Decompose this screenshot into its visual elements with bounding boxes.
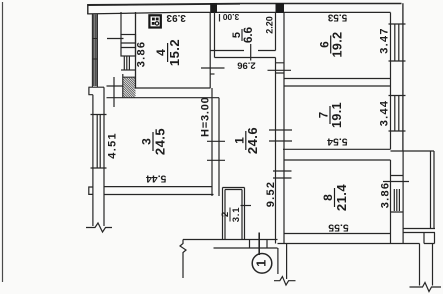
room 5 bottom wall bottom line [215,57,276,59]
top wall pier 3 [276,3,285,13]
central wall top left line (room5/6) [275,13,277,51]
top exterior wall outer line left [87,4,240,5]
shaft window bottom tick [121,69,136,71]
niche door lines (room 3 top-left) [107,74,136,107]
balcony outer wall line (right of room 8) [402,151,404,244]
dim 3.00 [222,12,239,22]
svg-text:2.96: 2.96 [237,59,256,70]
dim 3.47 [379,27,391,54]
window W4 joint ticks [92,39,97,60]
room 5 label [231,27,255,43]
dim 5.54 [327,136,348,148]
dim 3.00 left end tick [219,14,221,22]
room 2 label [220,207,242,223]
left exterior wall inner line (middle) [103,87,105,226]
room 5 bottom wall top line with door opening [210,50,275,52]
balcony door rungs (room 8 right) [391,176,404,213]
central wall left line (rooms 1 / 5,6,7,8) [275,58,277,244]
dim 4.51 [106,132,118,159]
window W3 glazing (room 3 left wall) [97,115,100,168]
wall jog A (left wall) [88,87,104,95]
svg-text:5.55: 5.55 [328,222,349,234]
room 3 bottom wall top line [104,186,212,188]
svg-text:3.44: 3.44 [379,100,391,127]
dim 3.86 right [379,182,391,209]
room 2 top wall [223,188,245,190]
room 5 door jamb tick [250,44,252,61]
svg-text:24.5: 24.5 [152,128,167,155]
bottom wall under room 8 [278,243,420,245]
dimension tick T3 [268,69,292,71]
wall bump B (left wall bottom) [89,187,93,194]
break mark bottom center [274,277,296,286]
window W6 end ticks [389,24,406,61]
right exterior wall inner line [390,13,392,150]
svg-text:15.2: 15.2 [167,39,182,66]
room 3 bottom wall bottom line [104,194,214,196]
balcony bottom bar [404,229,436,233]
svg-text:9.52: 9.52 [265,181,277,208]
svg-text:21.4: 21.4 [334,184,349,212]
svg-text:3.86: 3.86 [379,182,391,209]
balcony right wall double line [431,151,435,229]
room 2 left wall [223,188,226,240]
svg-text:24.6: 24.6 [245,127,260,154]
room 8 bottom line [284,233,391,235]
room 6 label [319,32,344,58]
central wall right line [283,13,285,244]
dim 2.96 [237,59,256,70]
svg-text:5: 5 [231,32,243,38]
dimension tick T9 [241,205,252,207]
window W6 glazing (room 6 right wall) [395,24,399,61]
room 7 top wall [284,85,391,87]
window W7 glazing (room 7 right wall) [395,96,399,132]
dim 3.93 [166,12,186,23]
svg-text:1: 1 [255,260,269,267]
top wall pier 2 [210,3,217,13]
svg-text:19.1: 19.1 [330,102,344,128]
svg-text:2: 2 [220,212,231,217]
corridor bottom wall bottom line [214,247,278,249]
svg-text:2.20: 2.20 [264,16,274,34]
top exterior wall outer line right [240,3,402,5]
svg-text:4.51: 4.51 [106,132,118,159]
vent shaft square symbol [149,15,160,27]
dim 5.44 [146,173,167,185]
room 7 label [319,102,344,128]
svg-text:3.47: 3.47 [379,27,391,54]
room 8 label [321,184,349,212]
window W8 glazing (room 8 right wall) [394,189,399,211]
balcony top wall [391,150,435,152]
central wall drop verticals [278,244,287,280]
svg-text:3.86: 3.86 [136,41,148,68]
corridor bottom wall top line [183,239,278,241]
section mark numeral 1 [255,260,269,267]
tick T1 [107,38,124,40]
shaft window glazing [124,56,129,70]
room 6 bottom wall [284,78,391,80]
svg-text:3.1: 3.1 [231,207,242,223]
room 4 label [154,39,182,66]
tick T12 [383,181,409,183]
top exterior wall inner line [87,12,390,14]
dim 5.53 [327,12,347,23]
svg-text:6: 6 [319,41,331,47]
svg-text:19.2: 19.2 [331,32,345,58]
dim 9.52 [265,181,277,208]
room 8 right wall [390,160,392,244]
bottom right step verticals [420,244,433,286]
dim 3.44 [379,100,391,127]
svg-text:H=3.00: H=3.00 [200,96,212,137]
room 4 left wall [135,12,137,88]
dimension tick T6 [207,140,225,142]
window W3 end ticks [91,115,107,169]
left exterior wall outer line (middle) [92,95,94,226]
svg-text:5.54: 5.54 [327,136,348,148]
svg-text:5.53: 5.53 [327,12,347,23]
window W7 end ticks [389,96,406,132]
right exterior wall outer line [402,3,404,151]
dim 3.86 left [136,41,148,68]
dimension tick T2 [201,67,225,69]
dimension tick T7 [207,159,225,161]
break mark bottom right [410,283,442,292]
room 1 label [232,127,260,154]
room 3 label [140,128,168,155]
window W4 glazing (left wall) [94,15,96,87]
room 2 right wall [242,188,245,240]
vent block internal lines [121,43,136,48]
rung in wall 4/5 [210,73,214,75]
corridor left wall (rooms 3/1) [212,88,219,196]
dim 2.20 [264,16,274,34]
room 3 top wall bottom line [107,97,220,99]
dim H=3.00 [200,96,212,137]
hatch mass (wall between shaft and room 3) [123,78,135,98]
duct shaft left line (top-left) [120,12,122,35]
top exterior wall left end cap [87,4,89,14]
svg-text:5.44: 5.44 [146,173,167,185]
sheet left border [2,2,4,282]
svg-text:3.93: 3.93 [166,12,186,23]
vent block (top-left) [121,35,136,57]
break mark below room 3 [86,223,112,232]
room 4 bottom wall [136,87,211,89]
dimension tick T10 [273,170,292,172]
exterior wall drop left of entrance [180,240,186,279]
wall between room 4 and room 5 [210,12,214,88]
wall rooms 7/8 bottom line [284,159,391,161]
svg-text:3.00: 3.00 [222,12,239,22]
window W4 frame lines (left wall) [92,14,97,87]
dimension tick T5 [269,140,292,142]
svg-text:7: 7 [319,112,331,118]
dimension tick T11 [273,177,292,179]
section line 1 [258,233,260,256]
wall rooms 7/8 top line [283,148,391,150]
dim 5.55 [328,222,349,234]
dimension tick T4 [269,129,292,131]
entrance door jambs [250,240,268,249]
step corners [424,233,435,244]
svg-text:6.6: 6.6 [243,27,255,43]
central wall rungs [276,63,285,73]
section circle 1 [252,253,272,273]
